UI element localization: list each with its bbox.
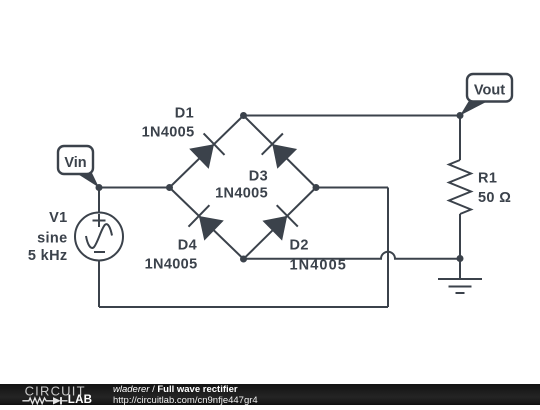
footer bar: [0, 384, 540, 405]
svg-text:LAB: LAB: [68, 393, 92, 405]
voltage source V1: [75, 213, 123, 261]
node: bridge top: [240, 112, 247, 119]
wire: V1 plus terminal up to Vin junction: [98, 188, 100, 213]
svg-text:D1: D1: [175, 106, 194, 122]
node: Vin junction: [96, 184, 103, 191]
wire: bridge top node to Vout junction: [244, 115, 461, 117]
svg-text:50 Ω: 50 Ω: [478, 190, 511, 206]
svg-text:Vin: Vin: [64, 155, 86, 171]
node: Vout junction: [457, 112, 464, 119]
svg-text:1N4005: 1N4005: [145, 257, 198, 273]
CircuitLab logo: [20, 384, 130, 405]
node: ground junction: [457, 255, 464, 262]
wire: bridge right node to right corner: [316, 187, 388, 189]
wire: bottom return run: [99, 306, 388, 308]
svg-text:D2: D2: [290, 238, 309, 254]
ground: [438, 259, 482, 294]
svg-text:1N4005: 1N4005: [215, 186, 268, 202]
diode D4: [189, 205, 224, 240]
wire: Vin junction to bridge left node: [99, 187, 170, 189]
net flag Vin: [58, 146, 99, 188]
footer url: [113, 395, 258, 406]
node: bridge bottom: [240, 256, 247, 263]
wire: R1 bottom to ground junction: [459, 214, 461, 259]
wire: bridge edge bottom-right (D2 edge): [244, 188, 317, 260]
resistor R1: [449, 160, 471, 214]
svg-text:5 kHz: 5 kHz: [28, 248, 68, 264]
diode D2: [262, 205, 297, 240]
wire: Vout junction down to resistor R1 top: [459, 116, 461, 161]
footer title: [113, 384, 238, 395]
svg-text:1N4005: 1N4005: [290, 258, 347, 274]
svg-text:sine: sine: [37, 231, 67, 247]
net flag Vout: [460, 74, 512, 116]
wire: bridge edge left-bottom (D4 edge): [170, 188, 244, 260]
wire: right corner down to bottom run: [387, 188, 389, 308]
logo resistor: [22, 398, 53, 404]
svg-text:1N4005: 1N4005: [142, 125, 195, 141]
diode D1: [189, 133, 224, 169]
svg-text:D4: D4: [178, 238, 197, 254]
wire: bridge bottom node to ground junction (hops over vertical wire): [244, 252, 461, 259]
svg-text:R1: R1: [478, 171, 497, 187]
node: bridge left: [166, 184, 173, 191]
wire: bridge edge left-top (D1 edge): [170, 116, 244, 188]
diode D3: [262, 134, 297, 169]
node: bridge right: [313, 184, 320, 191]
wire: bottom run up to V1 minus terminal: [98, 261, 100, 308]
wire: bridge edge top-right (D3 edge): [244, 116, 317, 188]
svg-text:D3: D3: [249, 168, 268, 184]
svg-text:Vout: Vout: [474, 83, 505, 99]
svg-text:V1: V1: [49, 210, 67, 226]
logo diode: [53, 397, 61, 404]
